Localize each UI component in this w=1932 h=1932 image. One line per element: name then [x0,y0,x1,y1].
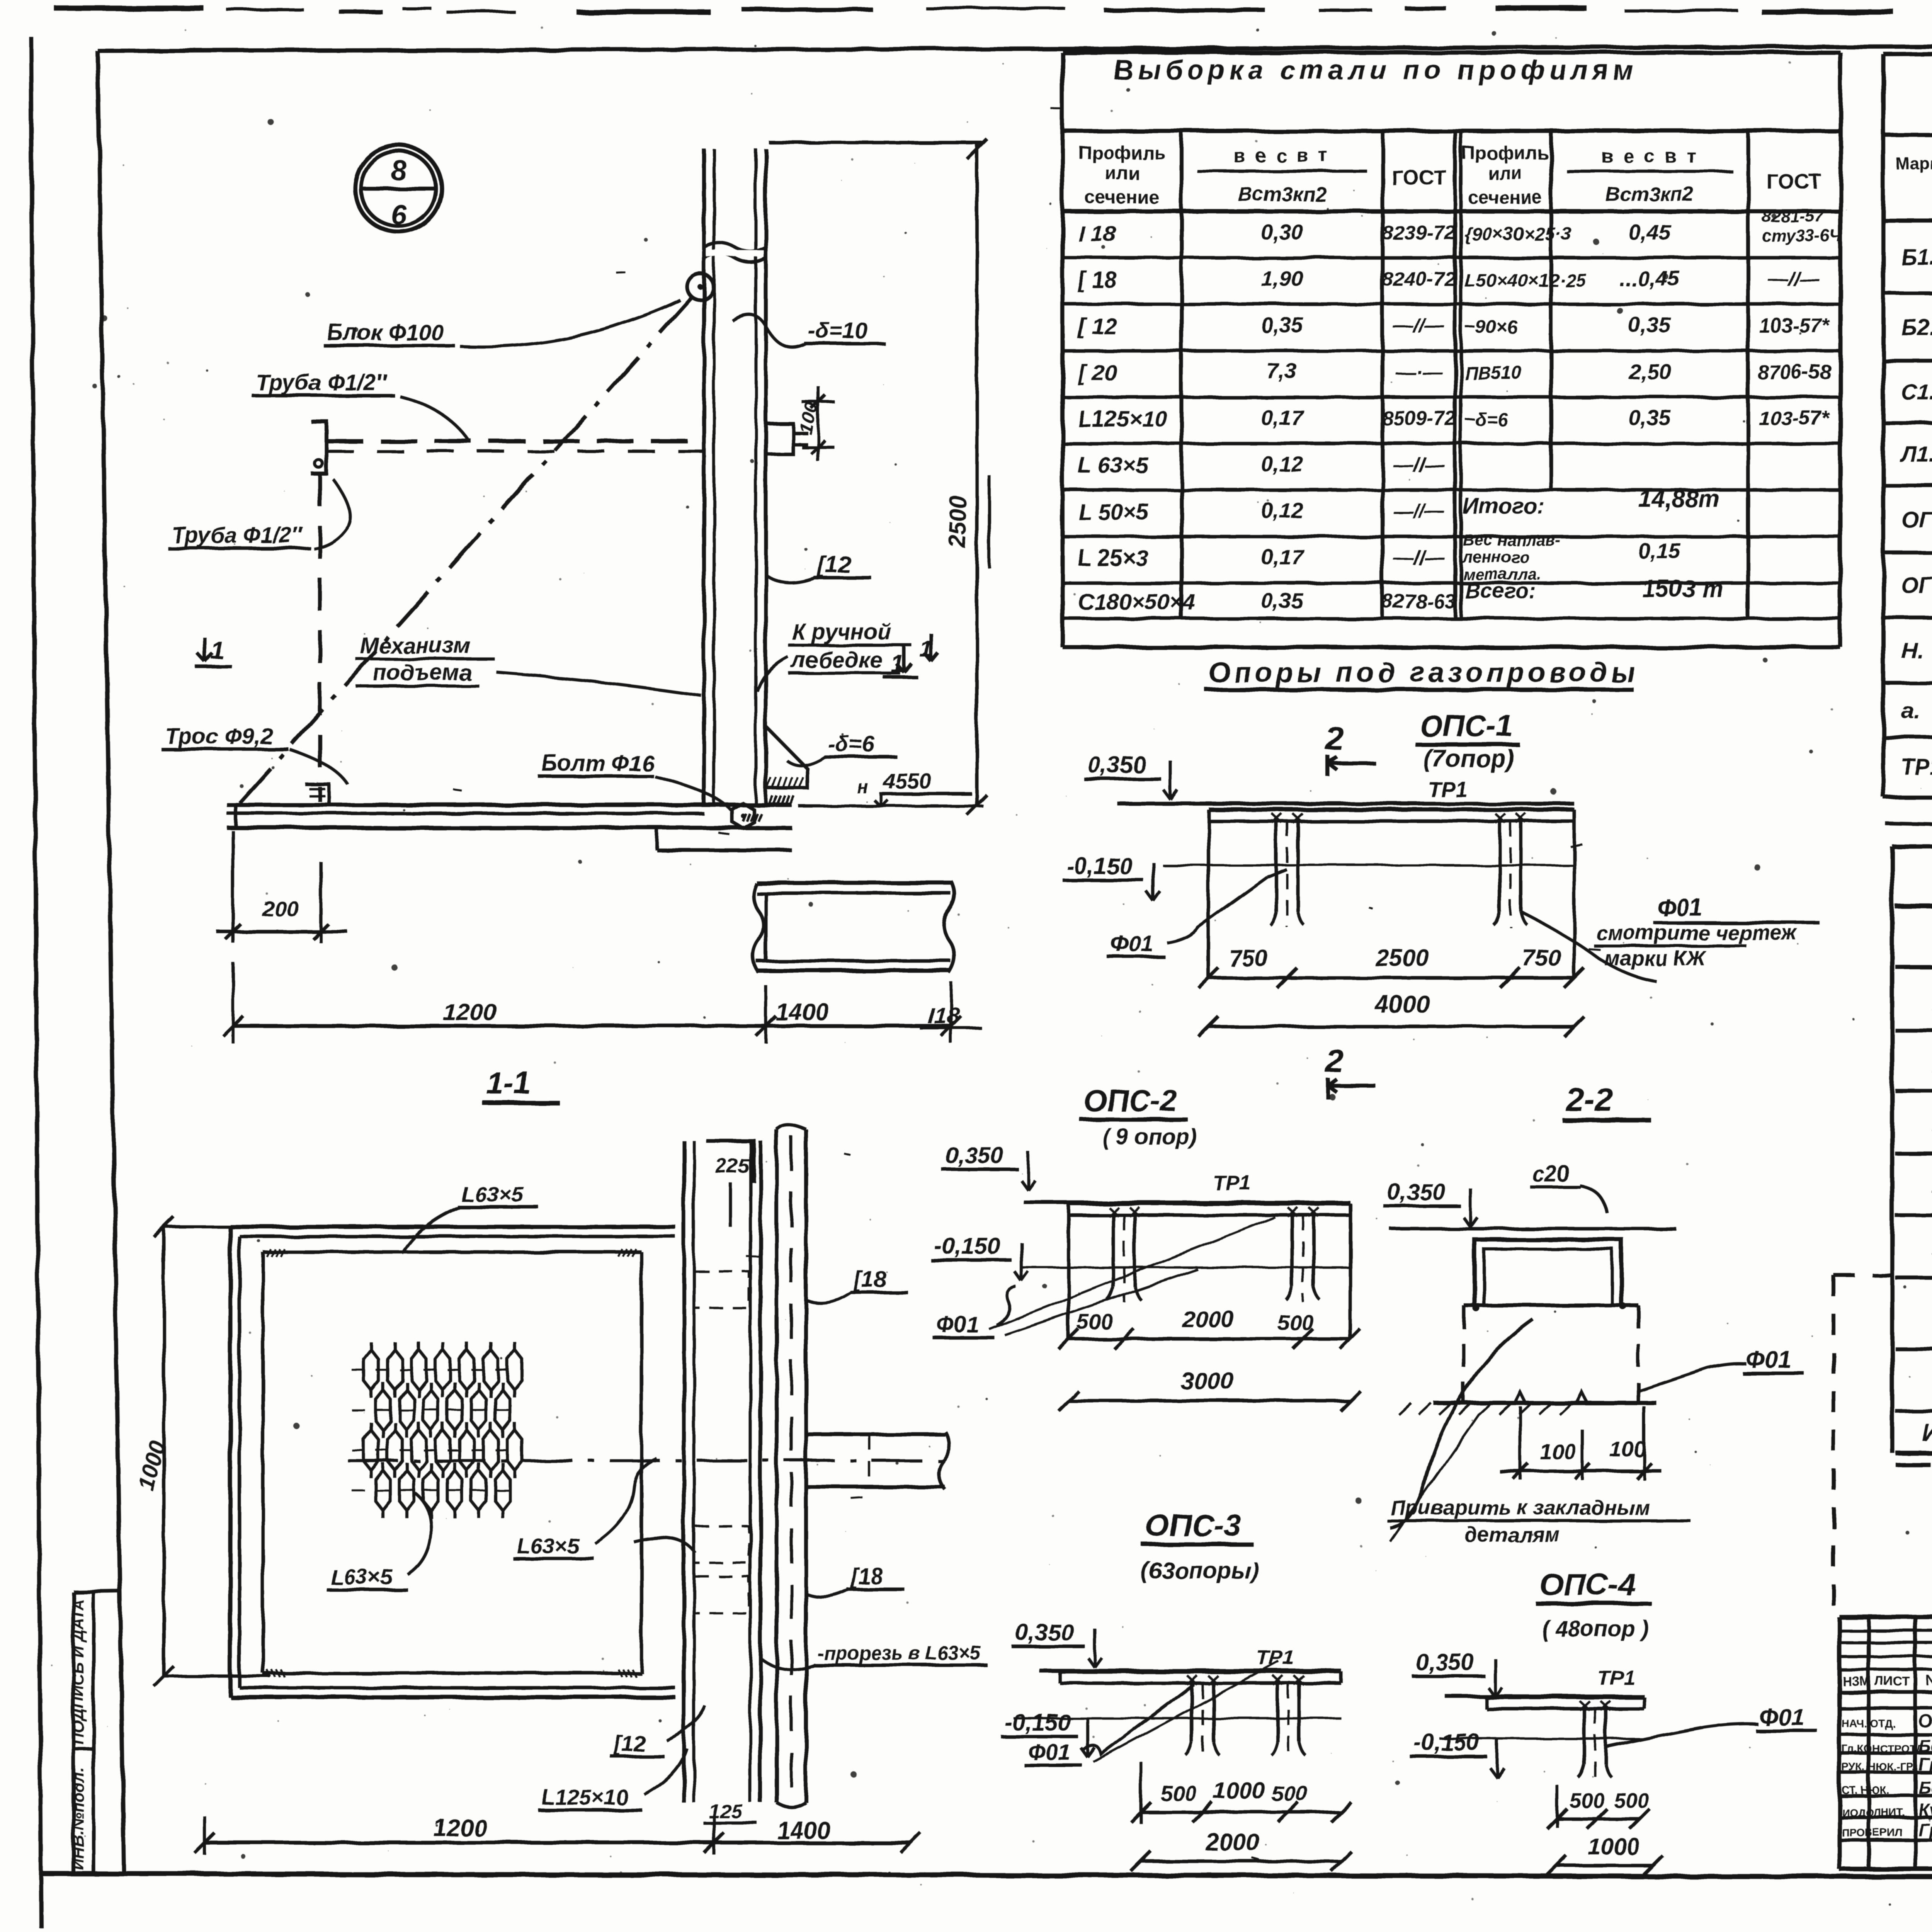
svg-text:Механизм: Механизм [360,633,470,658]
svg-text:0,35: 0,35 [1261,313,1304,337]
svg-text:ПВ510: ПВ510 [1464,363,1522,384]
svg-text:0,350: 0,350 [945,1142,1003,1168]
svg-text:[ 12: [ 12 [1077,314,1117,339]
svg-text:8239-72: 8239-72 [1382,222,1456,244]
svg-text:Б2.: Б2. [1901,315,1932,340]
svg-text:подъема: подъема [373,660,471,685]
svg-text:марки КЖ: марки КЖ [1604,947,1707,970]
svg-text:[18: [18 [853,1267,886,1292]
svg-text:ТР1: ТР1 [1428,777,1468,801]
svg-text:...0,45: ...0,45 [1619,266,1680,291]
svg-text:Труба Ф1/2″: Труба Ф1/2″ [256,370,388,395]
svg-text:ИНВ.№подл.: ИНВ.№подл. [69,1767,87,1870]
svg-text:8240-72: 8240-72 [1382,268,1456,291]
svg-text:103-57*: 103-57* [1759,315,1830,337]
svg-text:ТР1: ТР1 [1213,1172,1251,1195]
svg-text:103-57*: 103-57* [1759,407,1830,430]
svg-text:4000: 4000 [1374,990,1429,1018]
svg-text:—//—: —//— [1393,500,1445,522]
svg-text:8509-72: 8509-72 [1382,407,1456,430]
svg-text:225: 225 [715,1155,750,1177]
svg-text:-0,150: -0,150 [1414,1730,1480,1755]
svg-text:в е с в т: в е с в т [1233,145,1330,167]
svg-text:Профиль: Профиль [1079,143,1166,163]
svg-text:в е с в т: в е с в т [1601,145,1698,167]
svg-text:2: 2 [1325,720,1344,757]
svg-text:0,35: 0,35 [1261,588,1304,613]
svg-text:L63×5: L63×5 [461,1182,524,1206]
svg-text:—//—: —//— [1768,268,1820,291]
svg-text:0,35: 0,35 [1629,313,1671,337]
svg-text:ТР1: ТР1 [1256,1646,1294,1669]
svg-text:ПОДПИСЬ И ДАТА: ПОДПИСЬ И ДАТА [69,1599,87,1745]
svg-text:СТ. НЮК.: СТ. НЮК. [1842,1784,1889,1796]
svg-text:-0,150: -0,150 [1005,1709,1070,1735]
svg-text:Груздев: Груздев [1918,1754,1932,1774]
svg-text:Блок Ф100: Блок Ф100 [327,320,443,345]
svg-text:0,35: 0,35 [1629,405,1671,430]
svg-text:Вст3кп2: Вст3кп2 [1605,183,1694,206]
svg-text:—//—: —//— [1393,454,1445,476]
svg-text:Всего:: Всего: [1465,578,1536,603]
svg-text:ТР1: ТР1 [1597,1666,1635,1689]
svg-text:( 9 опор): ( 9 опор) [1102,1124,1197,1150]
svg-text:L 25×3: L 25×3 [1078,546,1148,571]
svg-text:-δ=10: -δ=10 [808,318,867,343]
svg-text:сечение: сечение [1468,187,1542,208]
svg-text:14,88т: 14,88т [1638,486,1719,512]
svg-text:I 18: I 18 [1078,221,1116,246]
svg-text:0,12: 0,12 [1261,452,1303,476]
svg-text:К ручной: К ручной [792,619,891,645]
svg-text:ОПС-3: ОПС-3 [1145,1508,1242,1543]
svg-text:−δ=6: −δ=6 [1464,410,1508,430]
svg-text:(7опор): (7опор) [1423,745,1514,772]
svg-text:а.: а. [1901,698,1920,723]
svg-text:с20: с20 [1532,1162,1570,1187]
svg-text:0,350: 0,350 [1088,752,1146,778]
svg-text:Ф01: Ф01 [937,1312,979,1337]
svg-text:0,30: 0,30 [1261,220,1303,244]
svg-text:Овчинников: Овчинников [1918,1711,1932,1731]
svg-text:—//—: —//— [1393,546,1445,569]
svg-text:ленного: ленного [1462,548,1529,566]
svg-text:1-1: 1-1 [486,1066,531,1100]
svg-text:100: 100 [1539,1439,1575,1463]
svg-text:Итого:: Итого: [1463,494,1545,519]
svg-text:НЗМ: НЗМ [1842,1674,1870,1688]
svg-text:1200: 1200 [434,1815,487,1842]
svg-text:500: 500 [1271,1781,1307,1805]
svg-text:8281-57: 8281-57 [1762,207,1825,226]
svg-text:L63×5: L63×5 [517,1534,579,1558]
svg-text:0,17: 0,17 [1261,405,1304,430]
svg-text:С180×50×4: С180×50×4 [1078,590,1195,615]
svg-text:Кузнечов: Кузнечов [1918,1800,1932,1820]
svg-text:Опоры под газопроводы: Опоры под газопроводы [1209,657,1639,688]
svg-text:смотрите чертеж: смотрите чертеж [1596,921,1798,944]
svg-text:н: н [857,777,868,797]
svg-text:Груздев: Груздев [1918,1820,1932,1840]
svg-text:7,3: 7,3 [1267,359,1297,383]
svg-text:ГОСТ: ГОСТ [1767,170,1822,193]
svg-text:500: 500 [1614,1789,1649,1812]
svg-text:750: 750 [1522,945,1561,971]
svg-text:-δ=6: -δ=6 [828,731,875,757]
svg-text:лебедке: лебедке [791,648,883,673]
svg-text:Вст3кп2: Вст3кп2 [1238,183,1327,206]
svg-text:Бочков: Бочков [1918,1777,1932,1798]
svg-text:1000: 1000 [1588,1834,1639,1860]
svg-text:1503 т: 1503 т [1642,576,1723,602]
svg-text:Болт Ф16: Болт Ф16 [542,751,654,776]
svg-text:(63опоры): (63опоры) [1141,1558,1259,1583]
svg-text:2000: 2000 [1182,1306,1234,1332]
svg-text:2-2: 2-2 [1565,1082,1613,1118]
svg-text:0,17: 0,17 [1261,544,1304,569]
svg-text:1200: 1200 [443,999,496,1026]
svg-text:-прорезь в L63×5: -прорезь в L63×5 [817,1642,981,1664]
svg-text:L50×40×12·25: L50×40×12·25 [1464,270,1587,291]
svg-text:1: 1 [211,636,224,664]
svg-text:1400: 1400 [776,999,829,1026]
svg-text:Вес наплав-: Вес наплав- [1463,531,1560,549]
svg-text:ОПС-1: ОПС-1 [1419,709,1513,743]
svg-text:ОГ: ОГ [1901,507,1932,532]
svg-text:125: 125 [709,1800,743,1823]
svg-text:100: 100 [1610,1437,1646,1461]
svg-text:Ф01: Ф01 [1111,931,1153,956]
svg-text:сечение: сечение [1085,187,1159,208]
svg-text:750: 750 [1229,945,1267,971]
svg-text:[ 18: [ 18 [1077,267,1117,293]
svg-text:I18: I18 [927,1002,960,1028]
svg-text:Приварить к закладным: Приварить к закладным [1390,1496,1650,1519]
svg-text:[18: [18 [850,1564,884,1589]
svg-text:Выборка стали по профилям: Выборка стали по профилям [1114,55,1637,85]
svg-text:Н.: Н. [1901,638,1923,663]
svg-text:Гл.КОНСТРОТД: Гл.КОНСТРОТД [1842,1743,1923,1755]
svg-text:2: 2 [1325,1043,1344,1079]
svg-text:ОПС-4: ОПС-4 [1539,1567,1636,1602]
svg-text:0,350: 0,350 [1387,1179,1445,1205]
svg-text:РУК. НЮК.-ГР.: РУК. НЮК.-ГР. [1842,1761,1915,1773]
svg-text:или: или [1105,163,1139,184]
svg-text:3000: 3000 [1180,1368,1234,1395]
svg-text:Ф01: Ф01 [1759,1704,1804,1731]
svg-text:[ 20: [ 20 [1077,360,1117,385]
svg-text:-0,150: -0,150 [1066,853,1132,879]
svg-text:−90×6: −90×6 [1464,317,1517,337]
svg-text:деталям: деталям [1464,1523,1560,1546]
svg-text:( 48опор ): ( 48опор ) [1542,1616,1649,1641]
svg-text:№:ДОКУМ.: №:ДОКУМ. [1926,1673,1932,1689]
svg-text:L 63×5: L 63×5 [1078,453,1148,478]
svg-text:2,50: 2,50 [1628,359,1671,383]
svg-text:или: или [1488,163,1522,184]
svg-text:Б1.: Б1. [1901,245,1932,270]
svg-text:сту33-6Ч: сту33-6Ч [1762,226,1842,245]
svg-text:0,350: 0,350 [1416,1649,1474,1675]
svg-text:4550: 4550 [883,769,931,793]
svg-text:Беляев: Беляев [1918,1736,1932,1756]
svg-text:Ф01: Ф01 [1746,1347,1791,1373]
svg-text:1400: 1400 [777,1817,830,1844]
svg-text:—·—: —·— [1395,361,1442,383]
svg-text:Марка: Марка [1895,154,1932,173]
svg-text:Профиль: Профиль [1462,143,1549,163]
svg-text:{90×30×25·3: {90×30×25·3 [1464,224,1572,245]
svg-text:ПРОВЕРИЛ: ПРОВЕРИЛ [1842,1827,1903,1838]
svg-text:ИОДОЛНИТ.: ИОДОЛНИТ. [1842,1806,1905,1818]
svg-text:L63×5: L63×5 [330,1565,393,1589]
svg-text:НАЧ. ОТД.: НАЧ. ОТД. [1842,1718,1895,1730]
svg-text:Итого:: Итого: [1922,1419,1932,1447]
svg-text:Ф01: Ф01 [1657,895,1702,921]
svg-text:L 50×5: L 50×5 [1078,499,1148,524]
svg-text:С1.: С1. [1901,380,1932,405]
svg-text:ОПС-2: ОПС-2 [1083,1083,1177,1117]
svg-text:Ф01: Ф01 [1028,1740,1071,1765]
svg-text:-0,150: -0,150 [934,1233,1000,1259]
svg-text:500: 500 [1077,1310,1113,1334]
svg-text:L125×10: L125×10 [1078,406,1167,432]
svg-text:0,15: 0,15 [1638,539,1681,563]
svg-text:200: 200 [262,897,299,921]
svg-text:2500: 2500 [945,495,971,549]
svg-text:500: 500 [1277,1310,1313,1335]
svg-text:0,45: 0,45 [1629,220,1671,244]
svg-text:8: 8 [391,155,406,186]
svg-text:[12: [12 [614,1731,646,1756]
svg-text:1000: 1000 [1213,1778,1265,1804]
svg-text:[12: [12 [817,552,851,578]
svg-text:500: 500 [1160,1781,1196,1805]
svg-text:1,90: 1,90 [1261,266,1303,291]
svg-text:8278-63: 8278-63 [1382,590,1456,613]
svg-text:Л1.: Л1. [1900,442,1932,467]
svg-text:Трос Ф9,2: Трос Ф9,2 [165,724,273,749]
svg-text:0,12: 0,12 [1261,498,1303,522]
svg-text:ТР1: ТР1 [1901,755,1932,780]
svg-text:Труба Ф1/2″: Труба Ф1/2″ [172,523,303,548]
svg-text:—//—: —//— [1393,315,1445,337]
svg-text:2000: 2000 [1205,1829,1259,1855]
svg-text:500: 500 [1570,1789,1604,1812]
svg-text:ГОСТ: ГОСТ [1391,166,1447,189]
svg-text:L125×10: L125×10 [542,1785,628,1809]
svg-text:ЛИСТ: ЛИСТ [1875,1674,1910,1688]
svg-text:ОГ1: ОГ1 [1901,573,1932,598]
svg-text:8706-58: 8706-58 [1757,361,1831,383]
svg-text:0,350: 0,350 [1015,1619,1073,1645]
svg-text:2500: 2500 [1375,945,1429,971]
svg-text:6: 6 [391,199,406,230]
